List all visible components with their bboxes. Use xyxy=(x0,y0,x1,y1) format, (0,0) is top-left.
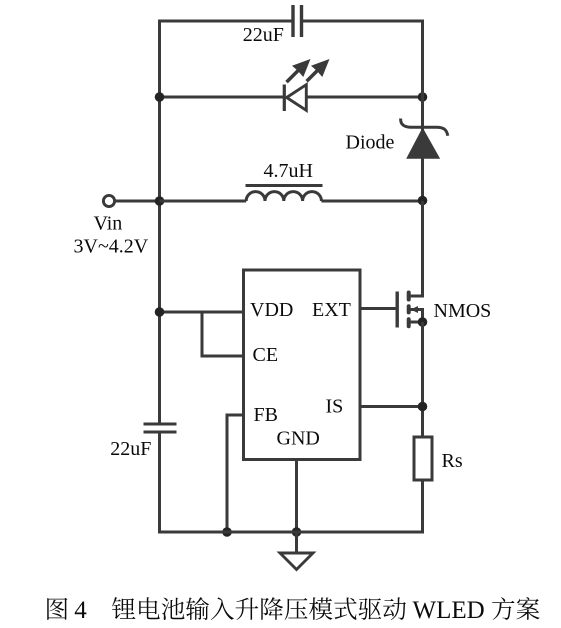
wire: left rail bottom segment (x=159.5, y433.5..532) xyxy=(158,434,161,533)
transistor Q1 NMOS: channel segments xyxy=(407,293,411,327)
caption glyph 电 xyxy=(139,597,160,619)
node: junction FB / bottom rail xyxy=(222,527,232,537)
node: junction Vin / left rail xyxy=(155,196,165,206)
wire: bottom rail xyxy=(158,531,424,534)
svg-text:GND: GND xyxy=(277,428,320,450)
caption glyph 锂 xyxy=(112,597,135,619)
svg-text:NMOS: NMOS xyxy=(434,300,492,322)
wire: EXT pin to NMOS gate xyxy=(360,307,396,310)
caption glyph 方 xyxy=(492,597,514,620)
caption glyph 模 xyxy=(309,597,332,619)
wire: top wire left of C1 xyxy=(158,20,293,23)
wire: VDD pin to left rail xyxy=(160,311,244,314)
svg-text:22uF: 22uF xyxy=(110,438,151,460)
wire: FB pin left and down xyxy=(227,415,244,532)
node: junction LED right xyxy=(418,92,428,102)
wire: left rail top segment (x=159.5, y21..422.5) xyxy=(158,20,161,423)
transistor Q1 NMOS: source lead xyxy=(409,321,423,324)
diode D2: filled triangle (anode) xyxy=(407,129,439,159)
LED D1: cathode bar xyxy=(283,85,286,112)
node: junction inductor / right rail xyxy=(418,196,428,206)
caption glyph 升 xyxy=(236,598,259,620)
node: junction NMOS source xyxy=(418,317,428,327)
wire: CE jumper horizontal xyxy=(201,355,244,358)
svg-text:VDD: VDD xyxy=(250,299,293,321)
caption: 图 4 锂电池输入升降压模式驱动 WLED 方案 xyxy=(47,597,539,624)
svg-text:3V~4.2V: 3V~4.2V xyxy=(74,236,149,258)
svg-text:FB: FB xyxy=(254,404,278,426)
caption glyph 案 xyxy=(516,597,539,620)
svg-text:22uF: 22uF xyxy=(243,24,284,46)
LED D1: light arrow 1 xyxy=(285,59,310,83)
caption glyph 入 xyxy=(211,597,234,620)
caption glyph 式 xyxy=(334,597,356,619)
inductor L1: top bar xyxy=(246,184,323,187)
wire: LED row right segment xyxy=(306,96,422,99)
svg-text:Rs: Rs xyxy=(442,450,463,472)
caption glyph 池 xyxy=(162,598,185,620)
wire: Vin to left rail xyxy=(115,200,160,203)
capacitor C1 22uF (top) plates xyxy=(293,5,302,37)
transistor Q1 NMOS: body lead with arrow xyxy=(411,310,423,323)
svg-text:CE: CE xyxy=(253,344,279,366)
transistor Q1 NMOS: gate bar xyxy=(396,292,399,328)
node: junction VDD / left rail xyxy=(155,307,165,317)
caption glyph 驱 xyxy=(359,598,382,620)
node: junction IS xyxy=(418,402,428,412)
svg-text:Vin: Vin xyxy=(94,213,123,235)
wire: IS pin to source rail xyxy=(360,405,423,408)
capacitor C2 22uF (left) plates xyxy=(144,424,177,432)
svg-text:Diode: Diode xyxy=(346,132,395,154)
caption glyph 压 xyxy=(285,598,308,620)
LED D1: light arrow 2 xyxy=(305,59,329,83)
wire: LED row left segment xyxy=(160,96,286,99)
caption glyph 输 xyxy=(186,597,209,620)
svg-text:EXT: EXT xyxy=(312,299,351,321)
resistor Rs: body xyxy=(414,437,432,480)
svg-text:WLED: WLED xyxy=(413,597,485,624)
diode D2: curved cathode xyxy=(401,119,448,136)
terminal: Vin input circle xyxy=(103,195,114,206)
transistor Q1 NMOS: drain lead xyxy=(409,201,423,296)
wire: right rail (top to NMOS drain bend) xyxy=(421,20,424,297)
wire: top wire right of C1 xyxy=(302,20,425,23)
wire: GND pin stub down xyxy=(295,460,298,533)
caption glyph 降 xyxy=(261,597,283,620)
LED D1: triangle xyxy=(287,85,307,111)
inductor L1: 4 humps xyxy=(246,192,321,201)
ground: stub xyxy=(295,532,298,553)
wire: inductor row right xyxy=(321,200,422,203)
IC U1: body xyxy=(244,270,361,460)
transistor Q1 NMOS: body arrow head xyxy=(411,306,419,313)
svg-text:IS: IS xyxy=(326,396,344,418)
wire: CE jumper vertical xyxy=(201,312,204,356)
wire: resistor to bottom rail xyxy=(421,480,424,534)
wire: source down to resistor xyxy=(421,322,424,437)
caption glyph 动 xyxy=(383,597,406,620)
caption glyph 图 xyxy=(47,598,67,620)
wire: inductor row left xyxy=(160,200,247,203)
svg-text:4: 4 xyxy=(74,597,87,624)
node: junction GND / bottom rail xyxy=(292,527,302,537)
svg-text:4.7uH: 4.7uH xyxy=(264,160,313,182)
node: junction LED left xyxy=(155,92,165,102)
ground: triangle xyxy=(280,553,313,570)
